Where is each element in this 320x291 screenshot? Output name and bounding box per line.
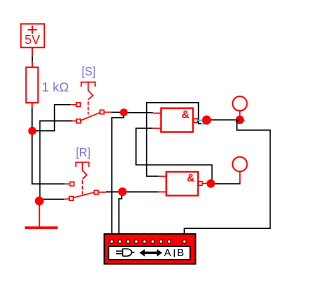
svg-text:[S]: [S] [82, 66, 96, 78]
junction node1 [28, 127, 36, 135]
lamp L2 [233, 157, 248, 172]
svg-text:&: & [187, 172, 195, 184]
wire node R to gate2 input b [122, 191, 158, 193]
gate U1 output bubble [194, 119, 198, 123]
wire node S to gate1 input a [124, 112, 153, 114]
switch R actuator link (dashed) [81, 180, 83, 194]
switch R upper contact [70, 182, 74, 186]
lamp L1 [233, 96, 247, 110]
svg-text:5V: 5V [25, 33, 41, 47]
switch R actuator [76, 162, 89, 179]
comparator gate icon [116, 249, 134, 256]
wire node S to logic input A [112, 112, 124, 234]
wire S lower contact to ground rail [40, 121, 72, 201]
wire left rail down to R branch [31, 108, 33, 184]
wire node1 to R upper contact [32, 183, 65, 185]
switch R common contact [94, 190, 98, 194]
junction node Q [202, 115, 211, 124]
switch S blade [81, 112, 101, 120]
svg-text:1 kΩ: 1 kΩ [42, 79, 69, 94]
junction node R [118, 187, 127, 196]
resistor lead [31, 103, 33, 108]
comparator arrow icon [139, 249, 162, 256]
switch R lower contact [69, 196, 73, 200]
logic comparator box [104, 234, 195, 264]
svg-text:A: A [164, 247, 171, 259]
switch S actuator [81, 82, 95, 100]
wire node1 to S upper contact [32, 105, 71, 131]
switch S upper contact [76, 103, 80, 107]
NAND gate U2 [166, 172, 198, 196]
comparator display panel [109, 246, 191, 259]
switch S common contact [100, 110, 104, 114]
switch R blade [73, 192, 94, 197]
junction node Qbar [207, 179, 216, 188]
lamp L2 lead [239, 172, 241, 183]
wire node2 to R lower contact [41, 198, 64, 200]
comparator channel dots [110, 239, 187, 243]
resistor R1 [26, 67, 38, 102]
lamp L1 lead [239, 111, 241, 116]
svg-text:B: B [177, 247, 184, 259]
battery B1 5V [21, 24, 44, 48]
wire node R to logic input B [119, 192, 122, 234]
NAND gate U1 [161, 108, 193, 132]
feedback wire gate2 output to gate1 input b [136, 128, 212, 183]
lamp1 node cyan current [234, 120, 245, 122]
wire gate2 bubble to node Qbar [202, 182, 206, 184]
wire S common to node S [104, 111, 111, 113]
wire lamp1 node to right rail to logic box [184, 120, 270, 234]
feedback wire gate1 output to gate2 input a [147, 103, 204, 177]
svg-text:&: & [182, 109, 190, 121]
wire gate1 bubble to node Q (cyan current) [197, 119, 202, 121]
switch S lower contact [77, 119, 81, 123]
ground lead [38, 201, 40, 227]
wire node Q to lamp1 node [207, 119, 240, 121]
gate U2 output bubble [198, 182, 202, 186]
wire node Qbar to lamp2 [211, 182, 240, 184]
svg-text:[R]: [R] [76, 148, 91, 160]
ground [25, 226, 58, 229]
junction lamp1 node [236, 116, 245, 125]
junction node S [120, 109, 128, 117]
switch S actuator link (dashed) [87, 101, 89, 114]
junction node2 [35, 197, 44, 206]
wire R common to node R [98, 191, 106, 193]
wire battery to resistor [31, 48, 33, 57]
